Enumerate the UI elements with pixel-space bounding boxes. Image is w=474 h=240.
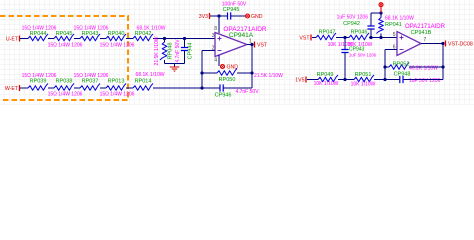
resistor RP039 [28,83,48,90]
wire pin4 [218,55,220,66]
svg-text:RP048: RP048 [168,43,174,60]
capacitor CP948 [400,76,403,83]
junction [217,14,220,17]
wire [344,53,346,80]
junction [379,36,382,39]
resistor RP048 [160,42,167,60]
svg-text:21.5K 1/10W: 21.5K 1/10W [254,73,283,79]
wire [307,79,318,81]
wire [344,38,346,50]
wire [442,44,444,80]
svg-text:RP045: RP045 [56,31,73,37]
junction [441,65,444,68]
svg-text:CP945: CP945 [223,7,240,13]
wire [153,87,202,89]
wire output [247,44,252,46]
resistor RP052 [389,62,409,69]
junction [200,71,203,74]
capacitor CP942 [367,26,374,29]
capacitor CP943 [341,50,348,53]
svg-text:10K 1/10W: 10K 1/10W [314,81,339,87]
svg-text:RP014: RP014 [135,79,152,85]
wire pin8 [218,16,220,33]
wire [385,66,389,68]
svg-text:1uF 50V 1206: 1uF 50V 1206 [337,15,369,21]
resistor RP050 [217,68,237,75]
wire [237,72,252,74]
wire [100,38,106,40]
wire [126,87,133,89]
wire [164,60,166,64]
dashed selection box [0,16,128,100]
wire [74,87,80,89]
svg-text:RP050: RP050 [219,77,236,83]
svg-text:U-ET: U-ET [6,37,19,43]
wire [385,79,400,81]
svg-text:68.1K 1/10W: 68.1K 1/10W [137,26,166,32]
svg-text:5: 5 [393,32,396,38]
resistor RP042 [133,34,153,41]
resistor RP037 [80,83,100,90]
svg-text:15Ω 1/4W 1206: 15Ω 1/4W 1206 [74,26,109,32]
wire [223,87,252,89]
svg-text:CP944: CP944 [188,43,194,60]
junction [383,65,386,68]
wire [210,15,228,17]
wire [231,15,246,17]
wire [403,79,443,81]
svg-text:40.2K 1/10W: 40.2K 1/10W [409,66,438,72]
svg-text:RP042: RP042 [135,31,152,37]
svg-text:3: 3 [212,33,215,39]
svg-text:RP040: RP040 [108,31,125,37]
svg-text:68.1K 1/10W: 68.1K 1/10W [136,72,165,78]
wire [153,38,215,40]
svg-text:RP039: RP039 [30,79,47,85]
svg-text:3V3: 3V3 [199,14,208,20]
svg-text:VST-DC08: VST-DC08 [448,42,473,48]
svg-text:RP052: RP052 [393,61,410,67]
svg-text:RP051: RP051 [355,72,372,78]
wire [20,38,28,40]
capacitor CP945 [228,12,231,19]
svg-text:W-ET: W-ET [5,86,19,92]
svg-text:4.7nF 50V: 4.7nF 50V [235,89,259,95]
wire [20,87,28,89]
net label VST-DC08 [445,41,447,47]
svg-text:1V5: 1V5 [295,78,304,84]
wire [369,37,397,39]
svg-text:RP013: RP013 [108,79,125,85]
ground [174,64,176,67]
svg-text:4: 4 [214,58,217,64]
wire [202,72,217,74]
wire [336,37,349,39]
resistor RP051 [354,75,374,82]
wire [184,39,186,48]
resistor RP044 [28,34,48,41]
svg-text:15Ω 1/4W 1206: 15Ω 1/4W 1206 [100,92,135,98]
wire [338,79,354,81]
resistor RP041 [376,18,383,34]
wire pin2 [202,50,215,52]
wire [126,38,133,40]
resistor RP049 [318,75,338,82]
ground GND [221,65,225,69]
wire [409,66,443,68]
svg-text:CP946: CP946 [215,93,232,99]
junction [441,42,444,45]
wire [202,87,220,89]
svg-text:RP047: RP047 [319,30,336,36]
ground GND [246,14,250,18]
junction [200,86,203,89]
wire [380,13,382,18]
svg-text:RP044: RP044 [30,31,47,37]
wire pin6 [385,49,397,51]
svg-text:4.7nF 50V: 4.7nF 50V [175,39,181,63]
resistor RP045 [54,34,74,41]
svg-text:CP948: CP948 [394,72,411,78]
junction [250,43,253,46]
svg-text:RP038: RP038 [56,79,73,85]
svg-text:68.1K 1/10W: 68.1K 1/10W [385,16,414,22]
resistor RP040 [106,34,126,41]
junction [183,37,186,40]
svg-text:CP942: CP942 [343,21,360,27]
power [380,7,382,13]
svg-text:RP046: RP046 [351,30,368,36]
svg-text:10K 1/10W: 10K 1/10W [351,82,376,88]
wire [374,79,385,81]
junction [379,11,382,14]
svg-text:8: 8 [214,26,217,32]
resistor RP013 [106,83,126,90]
wire [312,37,316,39]
svg-text:1uF 50V 1206: 1uF 50V 1206 [409,78,441,84]
svg-text:VST: VST [257,43,268,49]
capacitor CP946 [220,84,223,91]
wire [380,34,382,38]
capacitor CP944 [181,48,188,51]
svg-text:100nF 50V: 100nF 50V [222,2,247,8]
svg-text:15Ω 1/4W 1206: 15Ω 1/4W 1206 [74,73,109,79]
resistor RP046 [349,33,369,40]
wire [74,38,80,40]
svg-text:7: 7 [424,37,427,43]
wire [48,87,54,89]
net label VST [254,42,256,48]
wire [100,87,106,89]
svg-text:15Ω 1/4W 1206: 15Ω 1/4W 1206 [48,43,83,49]
svg-text:RP041: RP041 [385,22,402,28]
wire [251,45,253,89]
svg-text:1uF 50V 1206: 1uF 50V 1206 [349,53,377,58]
wire [184,51,186,64]
wire [164,39,166,43]
svg-text:15Ω 1/4W 1206: 15Ω 1/4W 1206 [22,26,57,32]
junction [250,71,253,74]
junction [369,36,372,39]
resistor RP043 [80,34,100,41]
junction [343,36,346,39]
op-amp CP941A [215,33,247,57]
svg-text:GND: GND [251,14,263,20]
junction [343,78,346,81]
wire [48,38,54,40]
svg-text:RP043: RP043 [82,31,99,37]
wire [370,29,372,38]
svg-text:RP049: RP049 [317,72,334,78]
svg-text:21.5K 1/10W: 21.5K 1/10W [154,36,160,65]
resistor RP038 [54,83,74,90]
svg-text:15Ω 1/4W 1206: 15Ω 1/4W 1206 [100,43,135,49]
svg-text:VST: VST [299,36,310,42]
resistor RP014 [133,83,153,90]
op-amp CP941B [397,32,421,56]
wire output [421,43,443,45]
svg-text:15Ω 1/4W 1206: 15Ω 1/4W 1206 [22,73,57,79]
svg-text:15Ω 1/4W 1206: 15Ω 1/4W 1206 [48,92,83,98]
resistor RP047 [316,33,336,40]
svg-text:CP941B: CP941B [411,30,432,36]
junction [163,37,166,40]
junction [383,78,386,81]
svg-text:RP037: RP037 [82,79,99,85]
